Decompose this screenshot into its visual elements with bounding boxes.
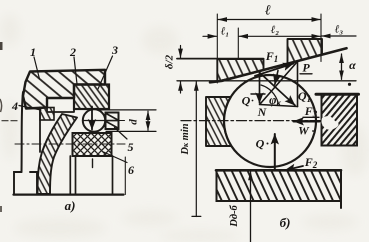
leader 4 [19,106,41,111]
leader 1 [34,57,40,79]
plate 4 (thin hatched strip) [40,108,54,121]
svg-text:б): б) [280,215,291,230]
housing left edge down to foot [22,92,24,172]
top edge line y=58.6 [177,58,264,60]
alpha dimension arrow [341,54,343,79]
thin vertical right [124,157,126,195]
incline (wedge surface) [210,48,347,82]
svg-text:3: 3 [111,43,118,57]
Dk min dimension [195,82,197,217]
curved lever piece (hatched band) [38,114,78,194]
F2 arrow [285,166,303,170]
svg-text:6: 6 [128,163,134,177]
leader 6 [104,152,128,163]
housing inner vertical [39,108,41,152]
svg-text:а): а) [65,198,76,213]
mid-right block thick top edge [316,93,359,96]
Dd-b dimension [250,171,252,242]
dimension l2 [239,35,320,37]
housing block 1 hatched body [23,70,105,109]
svg-text:2: 2 [69,45,76,59]
svg-text:1: 1 [30,45,36,59]
ref line end dot [348,83,351,86]
ball (fig b) [224,75,316,167]
centerline shaft (dash-dot) [15,143,125,145]
baseline [14,194,124,196]
svg-text:5: 5 [128,140,134,154]
Q up arrow (bottom) [274,134,276,169]
ball load arrow [91,107,93,130]
extension line x=321 [320,14,322,62]
svg-text:W: W [298,124,310,138]
svg-text:ℓ₃: ℓ₃ [335,24,344,36]
W arrow [294,120,320,122]
page edge smudges [0,42,3,212]
small contact arrow [275,71,278,85]
tick near Q [251,93,265,95]
ball row axis dashes [2,120,20,122]
svg-text:Q: Q [242,94,251,108]
horizontal reference line y=80.8 [177,80,356,82]
svg-text:Q: Q [256,137,265,151]
delta/2 dimension [180,46,182,58]
left-mid block (carved by ball) [206,97,231,146]
svg-text:δ/2: δ/2 [164,54,176,69]
svg-text:N: N [257,105,268,119]
leader 3 [98,56,113,89]
extension line x=217 [216,14,218,83]
svg-text:4: 4 [11,99,18,113]
dimension l [218,19,320,21]
extension line x=238 [237,28,239,59]
F1 arrow along incline [255,64,294,76]
svg-text:α: α [349,58,356,72]
ball horizontal axis [83,120,106,122]
pocket edge [47,98,74,112]
force parallelogram [259,73,261,104]
svg-text:ℓ₂: ℓ₂ [271,24,280,36]
svg-text:Dд-б: Dд-б [229,204,240,227]
dimension l1 (outside arrow) [203,35,217,37]
bottom block [217,170,342,208]
mid-right block [322,95,358,146]
ink dots (scan) [267,143,269,145]
top-right block [288,39,323,64]
svg-text:d: d [128,119,140,125]
upper-left block [217,59,263,81]
svg-text:ℓ₁: ℓ₁ [221,26,230,38]
foot block [14,172,37,194]
cage square 5 [106,113,119,130]
white wear blob [321,116,338,130]
center tick on race [92,159,94,168]
svg-text:Dк min: Dк min [180,123,191,155]
leader 2 [74,57,77,84]
inner race box [70,156,112,195]
ball (fig a) [83,109,105,131]
svg-text:P: P [302,61,310,75]
bottom block thick top [216,169,341,172]
centerline (dash-dot) [181,120,322,122]
bearing outer rect 6 (crosshatch) [73,133,112,156]
phi_k arc [261,85,279,104]
svg-text:ℓ: ℓ [265,4,271,19]
leader 5 [115,128,128,140]
dimension l3 [322,35,356,37]
d dimension lines [97,109,156,111]
bushing block 2/3 (dense hatch) [74,85,109,110]
